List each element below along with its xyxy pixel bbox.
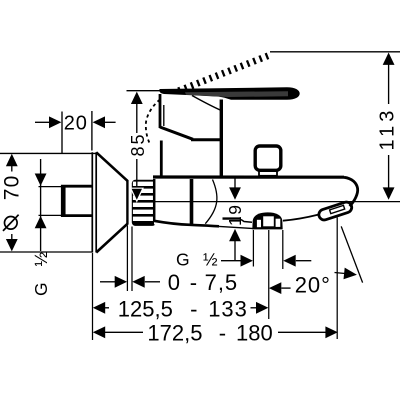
handle skirt inner line (163, 105, 165, 126)
spout underside link to outlet (241, 220, 252, 223)
dimension 19: leader and arrows (229, 179, 241, 261)
shower outlet dome G1/2 (252, 212, 282, 229)
centerline of wall connection and spout (153, 201, 400, 203)
spout inner curve (205, 180, 217, 224)
dimension 20 top: right arrow (93, 116, 116, 128)
handle skirt bottom diagonal (160, 127, 193, 139)
lever handle blade (159, 87, 299, 100)
dimension 172,5-180: dimension line with arrows (93, 326, 338, 338)
spout tip front edge (344, 177, 358, 206)
dimension 85: top extension line (127, 90, 161, 92)
spout top edge (153, 175, 344, 178)
dimension 20deg: right arrow (335, 268, 357, 280)
dimension dia70: bottom extension line (0, 251, 93, 253)
svg-text:20: 20 (64, 113, 88, 135)
shower outlet extension lines (253, 230, 282, 319)
knurled nut (132, 180, 156, 226)
dimension 125,5-133: dimension line with arrows (93, 302, 269, 314)
svg-text:113: 113 (377, 107, 399, 151)
mid body (cartridge housing) (161, 100, 221, 179)
escutcheon face double line (92, 152, 96, 252)
dimension 0-7,5: arrows (100, 276, 160, 288)
dimension 20 top: left arrow (35, 116, 61, 128)
dimension 85: dimension line and arrows (131, 92, 143, 200)
aerator extension line (336, 217, 338, 339)
dimension 20 top: extension line right (91, 111, 93, 151)
G1/2 left label leader with arrows (35, 159, 47, 251)
lower body bottom edge (154, 221, 219, 227)
svg-text:20°: 20° (295, 273, 331, 298)
svg-text:½: ½ (203, 249, 218, 269)
escutcheon cone (96, 152, 127, 252)
dimension dia70: top extension line (0, 152, 96, 154)
dimension 20 top: extension line left (61, 112, 63, 154)
faucet lower body fill (154, 178, 223, 225)
spout underside step (223, 217, 242, 219)
dimension dia70: dimension line and arrows (6, 154, 18, 252)
lower body left edge (153, 179, 156, 222)
dimension 113: dimension line and arrows (383, 53, 395, 200)
handle underside curve (192, 96, 221, 111)
dimension dia70: label (1, 174, 24, 230)
svg-text:19: 19 (225, 204, 245, 226)
svg-text:70: 70 (1, 174, 24, 200)
dimension 0-7,5: extension lines (127, 226, 132, 292)
lever open position dashed outline (179, 56, 269, 91)
spout far-side bottom line (219, 226, 254, 228)
aerator (317, 201, 353, 222)
svg-text:G: G (176, 249, 190, 269)
wall pipe stub G1/2 (62, 186, 92, 215)
dimension 113: top extension line (270, 51, 400, 53)
handle skirt left edge (159, 94, 162, 128)
dimension G1/2 bottom: dimension line with arrows (221, 255, 311, 267)
stub bottom extension line (39, 214, 63, 216)
stub top extension line (39, 186, 63, 188)
handle pivot dashed arc (146, 100, 160, 144)
dimension 125,5-133: left extension line (92, 253, 94, 340)
svg-text:85: 85 (128, 132, 148, 156)
spout underside right of outlet (283, 215, 318, 221)
svg-text:½: ½ (31, 252, 51, 267)
20 degree slant line (341, 226, 362, 282)
svg-text:G: G (31, 282, 51, 296)
diverter knob (255, 146, 281, 176)
body-spout joint line (190, 179, 194, 224)
dimension 20deg: left arrow (269, 282, 291, 294)
